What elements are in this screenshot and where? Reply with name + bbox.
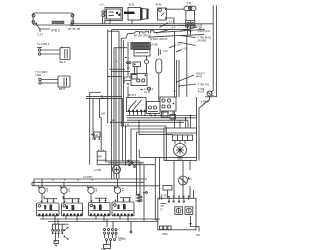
svg-text:W.B.: W.B. [156, 3, 163, 7]
switch S2 terminals [39, 78, 41, 84]
leader label right 1 [180, 30, 210, 37]
svg-text:A.2-5: A.2-5 [169, 20, 175, 23]
J43 connector marks [91, 134, 96, 141]
bake element E1 [175, 207, 183, 215]
label A7CB-2 [140, 88, 154, 94]
label 4RB [149, 44, 158, 47]
relay K2 [131, 74, 147, 86]
indicator light 3 [87, 186, 94, 203]
svg-text:. . . .: . . . . [203, 33, 208, 36]
pointer to label 4TRK [179, 84, 209, 87]
oven switch box S3 [127, 98, 147, 112]
inner comp wires [123, 56, 146, 81]
oven light circle [179, 176, 190, 185]
svg-text:t.O: t.O [100, 2, 105, 6]
svg-text:FUSE: FUSE [198, 91, 205, 94]
terminal bar [173, 135, 193, 141]
wire TOB drop [131, 20, 133, 24]
right harness wire 1 [212, 6, 214, 92]
svg-text:1:30: 1:30 [163, 50, 168, 53]
leader label right 2 [178, 37, 212, 46]
clock label dashes [68, 28, 80, 30]
plug connectors right of indicators [136, 192, 148, 202]
svg-text:BR: BR [98, 155, 102, 159]
svg-text:4P4 R: 4P4 R [196, 75, 203, 78]
wire TB to bus [189, 27, 191, 29]
svg-text:4.7M4: 4.7M4 [94, 168, 102, 172]
svg-text:W 3DR 13RD W: W 3DR 13RD W [150, 38, 168, 41]
svg-text:1TB2: 1TB2 [162, 232, 169, 236]
switch S1 terminals [37, 48, 42, 56]
fuse F1 [205, 91, 216, 97]
svg-text:A.P: A.P [172, 27, 176, 30]
svg-text:T.V.C-BR 3: T.V.C-BR 3 [37, 42, 50, 46]
svg-text:1:30 F: 1:30 F [175, 44, 182, 47]
wire to blower bar [139, 120, 173, 134]
svg-text:Y-BR: Y-BR [35, 73, 41, 77]
small circle below K2 [147, 87, 150, 90]
svg-text:4 BR-W: 4 BR-W [201, 101, 210, 104]
panel inner rect A [127, 62, 141, 67]
switch S1 body [60, 47, 70, 60]
svg-text:4.COB/Y: 4.COB/Y [83, 176, 93, 179]
svg-text:L17: L17 [38, 33, 44, 37]
relay box K1 [103, 8, 123, 24]
shaded block top-left of panel [131, 42, 151, 56]
right inner verticals [174, 31, 180, 97]
box bottom drops [130, 111, 174, 116]
fan wires [115, 48, 118, 179]
burner switch B1 [37, 201, 60, 216]
thermostat TOB box [124, 8, 149, 21]
fuse to lower wire [199, 97, 210, 108]
component PL box [97, 150, 106, 165]
left mid wires [86, 92, 122, 164]
svg-text:GY-BR: GY-BR [59, 85, 67, 89]
wire bus lower second [70, 24, 196, 26]
wire bus upper [112, 28, 191, 30]
slot wire down [158, 73, 160, 102]
panel vertical wire x128 [127, 42, 129, 97]
svg-text:BR W 4: BR W 4 [128, 94, 137, 97]
switch S2 wires [41, 80, 58, 84]
console panel outline [121, 29, 205, 133]
svg-text:4 RB: 4 RB [152, 44, 158, 47]
mid verticals to burner area [100, 29, 164, 194]
thermal breaker TB [184, 6, 196, 27]
label AP [156, 27, 176, 34]
wire C to TB [166, 8, 184, 10]
labels below panel edge right [169, 44, 188, 53]
switch C box [158, 8, 167, 20]
leader 4P [180, 26, 202, 32]
burner switch B4 [112, 200, 134, 216]
wire C drop [166, 18, 174, 24]
junction dots mid [101, 98, 114, 124]
svg-text:4 TRK R-B: 4 TRK R-B [198, 84, 210, 87]
tick marks near indicators [47, 189, 124, 192]
box top terminals [160, 196, 190, 202]
relay box S5 [160, 97, 176, 111]
svg-text:VM: VM [101, 112, 105, 116]
wires below burner row [40, 216, 160, 233]
svg-text:4.2B: 4.2B [197, 25, 202, 28]
svg-text:J43: J43 [92, 137, 97, 141]
svg-text:4P1: 4P1 [196, 233, 201, 237]
component AB [93, 132, 100, 140]
svg-text:3R BRN: 3R BRN [198, 40, 207, 43]
wire bus lower [70, 23, 213, 25]
TB panel drops [187, 24, 192, 35]
label fuse [198, 88, 205, 94]
svg-text:A2 W: A2 W [144, 91, 151, 94]
broil element E2 [185, 207, 193, 215]
clock timer A7B2 body [32, 13, 74, 25]
svg-text:A7B 2: A7B 2 [51, 28, 60, 32]
burner switch B2 [62, 201, 83, 216]
svg-text:4P3: 4P3 [122, 238, 127, 241]
svg-text:W.B: W.B [129, 3, 135, 7]
down arrow in box [189, 216, 191, 226]
pointer to label 4RED [177, 73, 206, 83]
svg-text:BR 3NT 3RS W: BR 3NT 3RS W [134, 34, 151, 37]
svg-text:BR 3: BR 3 [60, 60, 66, 64]
wire bundle below panel [111, 116, 197, 123]
wire K1 drop [109, 19, 111, 24]
right harness wire 2 [215, 6, 217, 98]
wire x93 [92, 99, 94, 132]
box S4 [147, 102, 161, 114]
lower wire bundle [97, 161, 155, 165]
bundle junction dots [151, 115, 161, 117]
panel small circle [145, 60, 149, 64]
svg-text:T.B.: T.B. [187, 1, 192, 5]
oven terminal box [158, 198, 196, 230]
wires above burner blocks [44, 196, 131, 201]
indicator light 1 [38, 179, 45, 203]
small boxes above blower [162, 112, 192, 128]
wire x199 down [198, 108, 200, 161]
box corner mid [107, 48, 127, 77]
blower assembly box [164, 128, 197, 161]
left edge dots [123, 58, 127, 83]
switch S2 body [58, 76, 70, 87]
wire to 4P1 [191, 226, 202, 237]
connector cluster B [101, 229, 123, 250]
right edge wire x196 [196, 97, 198, 133]
fan motor circle [113, 166, 121, 174]
connector cluster A [52, 216, 69, 246]
indicator light 4 [114, 179, 121, 202]
blower motor M1 [174, 141, 187, 157]
small comps above oven box [163, 186, 194, 199]
wire mid horizontal [139, 150, 196, 158]
label A2-5 [160, 20, 175, 27]
wires into blower box [175, 111, 189, 128]
panel horiz wire y71.5 [111, 71, 130, 73]
switch S1 wires [41, 50, 60, 54]
box inner left marks [160, 204, 166, 212]
right drops to oven box [137, 157, 160, 221]
connector glyphs on bundle [126, 160, 135, 167]
wires blower to oven box [174, 161, 190, 199]
clock leader lines [36, 25, 50, 33]
box bottom terminals [160, 226, 172, 230]
svg-text:1R 3R: 1R 3R [160, 194, 167, 197]
connector P2 top middle [102, 11, 107, 17]
burner switch B3 [89, 201, 111, 216]
svg-text:BO: BO [188, 178, 192, 181]
vertical slot [156, 59, 162, 73]
burner bus top [32, 179, 160, 186]
indicator light 2 [60, 182, 67, 203]
inner vertical x187 [186, 35, 188, 97]
